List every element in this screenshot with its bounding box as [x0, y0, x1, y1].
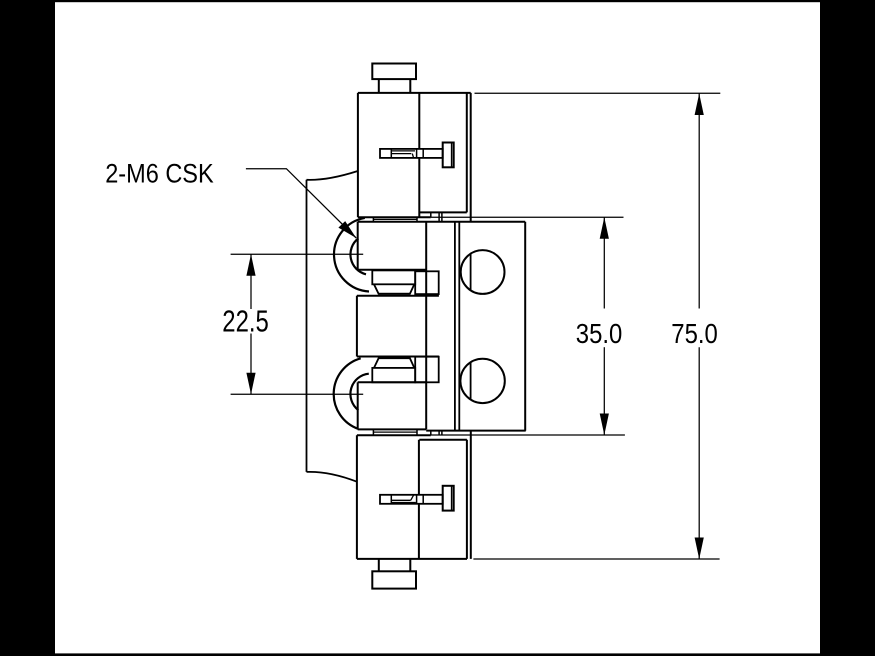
svg-text:75.0: 75.0	[671, 318, 718, 349]
svg-text:2-M6 CSK: 2-M6 CSK	[105, 159, 214, 189]
svg-text:22.5: 22.5	[222, 304, 268, 339]
svg-text:35.0: 35.0	[576, 318, 623, 349]
